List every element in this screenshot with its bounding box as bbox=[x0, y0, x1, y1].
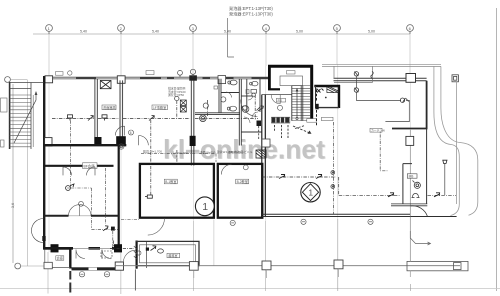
terrace bottom edge bbox=[115, 265, 460, 267]
column square wing interior bbox=[406, 136, 414, 145]
column G3 dark bbox=[189, 75, 197, 80]
circled 5 terrace bbox=[301, 219, 306, 224]
main stair center rail bbox=[301, 86, 303, 121]
riser circle corridor bbox=[175, 96, 179, 100]
main stair treads bbox=[292, 86, 310, 121]
urinal rects bbox=[246, 90, 249, 94]
grid line B vertical bbox=[120, 34, 122, 75]
small label above wall mid bbox=[146, 71, 154, 75]
exterior stair up arrow bbox=[14, 92, 36, 143]
dark box symbol below wall bbox=[111, 227, 115, 231]
EV door dashed bbox=[316, 90, 318, 127]
vent circle grid3 bbox=[190, 69, 195, 77]
dashed drop toilet corridor bbox=[254, 95, 256, 120]
svg-text:発泡器:EPT:1-13P(T30): 発泡器:EPT:1-13P(T30) bbox=[229, 11, 273, 18]
small box left edge lower bbox=[1, 140, 5, 147]
fence line below kitchen bbox=[134, 269, 136, 290]
slash glyphs corridor bbox=[257, 106, 264, 111]
svg-text:便所:W=800: 便所:W=800 bbox=[228, 151, 244, 155]
circled 11 bbox=[278, 105, 283, 110]
dashed arrows below stair bbox=[295, 126, 305, 129]
porch rectangle bbox=[334, 66, 373, 82]
bottom column C3 bbox=[262, 261, 271, 270]
rect fixture right toilet bbox=[251, 90, 257, 97]
drive curve inner bbox=[434, 66, 459, 215]
grid line A vertical bbox=[48, 34, 50, 75]
B1 wall pale extension bbox=[213, 220, 215, 266]
flag symbol 1 bbox=[68, 115, 73, 121]
top-right canopy lines bbox=[322, 64, 441, 66]
circled 15 room left bbox=[79, 201, 84, 206]
svg-text:6: 6 bbox=[130, 131, 132, 135]
corridor dash line bbox=[141, 153, 216, 162]
svg-text:W=1,200: W=1,200 bbox=[176, 151, 188, 155]
svg-text:1: 1 bbox=[308, 188, 313, 198]
PS room wall bbox=[262, 94, 292, 96]
curtain label box bbox=[370, 128, 382, 132]
dash vertical above B1 bbox=[176, 150, 178, 163]
column G1 bbox=[45, 76, 53, 83]
bottom column C2 bbox=[189, 262, 198, 271]
svg-text:BF倉庫: BF倉庫 bbox=[84, 163, 96, 168]
corridor dash vertical bbox=[112, 231, 114, 248]
dashed panel box bbox=[101, 251, 112, 258]
stub column toilet wall bbox=[218, 76, 226, 84]
svg-text:3,6: 3,6 bbox=[11, 203, 15, 208]
left dimension line bbox=[27, 80, 29, 266]
right boundary vertical bbox=[456, 82, 458, 204]
symbol right of MB bbox=[434, 193, 440, 197]
vestibule thick walls bbox=[268, 65, 313, 121]
exterior stair top landing bbox=[10, 83, 44, 89]
office label box bbox=[152, 105, 168, 110]
corner post square bbox=[452, 75, 458, 82]
toilet fixture 4 bbox=[242, 106, 248, 110]
svg-text:B-1教室: B-1教室 bbox=[165, 179, 176, 184]
vestibule landing bbox=[280, 76, 303, 86]
label box washroom bbox=[102, 105, 116, 110]
big circled 1 bbox=[195, 197, 214, 216]
arrow symbol below wall bbox=[103, 226, 108, 231]
pump symbol bbox=[413, 181, 421, 189]
dash route to door bbox=[71, 188, 91, 228]
kitchen label bbox=[167, 253, 180, 257]
wall y=166 storage bbox=[43, 165, 114, 167]
small room SW walls bbox=[44, 247, 72, 250]
interior wall x=118.7 bbox=[118, 146, 120, 249]
left grid bubble top bbox=[5, 77, 28, 83]
electrical phi right bbox=[400, 98, 408, 103]
interior wall x=121 bbox=[120, 80, 123, 136]
grid bubble 1 bbox=[46, 25, 53, 34]
stair landing box left edge bbox=[1, 98, 8, 112]
column bottom x118 filled bbox=[114, 244, 122, 252]
bottom-left wall y=248 bbox=[43, 247, 119, 250]
column outline bottom x119 bbox=[115, 262, 123, 270]
circled 6 mid bbox=[129, 130, 134, 135]
toilet block walls bbox=[195, 79, 262, 146]
sink circle 2 bbox=[203, 103, 208, 108]
big door arc toilet exit bbox=[241, 100, 258, 117]
svg-text:5,00: 5,00 bbox=[368, 30, 375, 34]
svg-text:B-2教室: B-2教室 bbox=[237, 179, 248, 184]
flag symbol 2 bbox=[102, 115, 107, 121]
electrical phi top bbox=[354, 72, 358, 77]
svg-text:湯沸室: 湯沸室 bbox=[168, 253, 178, 258]
grid F through wing bbox=[409, 130, 411, 217]
kitchen door arc bbox=[123, 250, 136, 262]
left grid bubble bottom bbox=[15, 263, 44, 269]
roof label and symbol above wall bbox=[56, 72, 64, 76]
grid bubble 2 bbox=[118, 25, 125, 34]
property line heavy dashed below bbox=[69, 271, 71, 293]
svg-text:建具:W=1,700: 建具:W=1,700 bbox=[143, 149, 162, 154]
flag in B1 bbox=[145, 195, 152, 198]
EV hatch box bbox=[327, 87, 338, 93]
room1 bottom wall y=145 bbox=[43, 144, 126, 146]
room B-2 label bbox=[236, 179, 249, 184]
corridor door arc bbox=[139, 136, 149, 146]
svg-text:倉庫: 倉庫 bbox=[57, 255, 64, 260]
dash vert corridor left bbox=[105, 168, 107, 224]
sink circle 1 bbox=[221, 97, 226, 102]
circled left kitchen bbox=[137, 251, 141, 255]
EV corner glyphs bbox=[317, 89, 324, 93]
electrical dashline main left bbox=[52, 118, 119, 120]
drain jog arrow bbox=[410, 231, 430, 245]
MB room bbox=[403, 129, 427, 205]
sheet right border bbox=[496, 8, 498, 291]
right wing east wall bbox=[392, 81, 427, 129]
door arc room1 bbox=[115, 126, 124, 135]
corridor riser dash vertical bbox=[333, 122, 335, 214]
toilet door arcs bbox=[226, 92, 258, 123]
top wall dark segments bbox=[43, 77, 269, 79]
bottom right slab band bbox=[407, 261, 468, 270]
vestibule label bbox=[287, 71, 296, 74]
door hinge blob bbox=[42, 236, 45, 241]
console boxes dark bbox=[272, 118, 289, 123]
grid line D vertical bbox=[265, 34, 267, 66]
kitchen fixtures bbox=[158, 249, 164, 253]
circled 8 toilet bbox=[200, 115, 207, 122]
grid bubble 3 bbox=[190, 25, 197, 34]
fixture box corridor wall bbox=[262, 139, 270, 147]
circled symbol b2 bbox=[104, 272, 109, 277]
EV center dot bbox=[325, 97, 327, 99]
arrow symbol 1 bbox=[88, 116, 93, 121]
double door arcs y=215.8 bbox=[69, 205, 92, 216]
exterior stair left rail bbox=[9, 82, 11, 149]
arrow symbol 2 bbox=[149, 116, 154, 121]
door arcs bottom wall bbox=[76, 250, 111, 259]
svg-text:1: 1 bbox=[202, 201, 208, 213]
slab inner square bbox=[454, 263, 462, 270]
circled 6 terrace bbox=[368, 219, 373, 224]
grid F lower segment bbox=[409, 217, 411, 262]
hatch marks left of kitchen bbox=[134, 246, 137, 259]
toilet fixture 1 bbox=[228, 80, 237, 85]
toilet fixture 3 bbox=[227, 106, 236, 111]
column mid room bbox=[94, 137, 101, 146]
dash line right of MB bbox=[428, 194, 457, 196]
svg-text:P.S: P.S bbox=[278, 99, 282, 103]
column office wall bbox=[190, 136, 196, 146]
svg-text:1F事務室: 1F事務室 bbox=[153, 105, 166, 110]
svg-text:5,40: 5,40 bbox=[80, 30, 87, 34]
column ticks below bbox=[194, 269, 339, 278]
dash route into kitchen bbox=[110, 241, 134, 249]
note leader line bbox=[228, 18, 235, 57]
circled 5 below B1 bbox=[230, 220, 235, 225]
room B-2 bbox=[218, 164, 262, 218]
toilet fixture 2 bbox=[250, 81, 258, 86]
grid bubble 5 bbox=[334, 25, 341, 34]
terrace symbol 2 bbox=[316, 175, 322, 179]
vent circle C wall bbox=[178, 70, 183, 77]
main stair arrow bbox=[296, 89, 298, 118]
svg-text:洗面:W=750: 洗面:W=750 bbox=[200, 151, 216, 155]
toilet dash drop bbox=[207, 100, 209, 116]
svg-text:カーテンW: カーテンW bbox=[371, 129, 385, 133]
column right wing bbox=[406, 74, 416, 83]
column bottom left filled bbox=[51, 244, 59, 252]
entry door arcs left wall bbox=[32, 219, 44, 243]
office room right wall x=193 bbox=[191, 80, 194, 165]
big section marker diamond bbox=[301, 183, 320, 202]
circled symbol b1 bbox=[79, 272, 84, 277]
bottom wall band bbox=[72, 267, 89, 270]
sheet bottom border bbox=[0, 288, 500, 290]
svg-text:5,40: 5,40 bbox=[224, 30, 231, 34]
double door arcs wall y166 bbox=[63, 167, 95, 176]
circled 14 lower bbox=[119, 144, 124, 149]
B-2 door arc bbox=[221, 164, 231, 174]
left exterior wall bbox=[43, 76, 45, 249]
MB room bottom bbox=[391, 204, 427, 206]
electrical route down bbox=[385, 100, 409, 121]
corridor dash horizontal bbox=[121, 219, 139, 221]
svg-text:MB: MB bbox=[409, 175, 414, 179]
EV label box bbox=[322, 117, 334, 120]
landing label box bbox=[307, 119, 316, 123]
grid bubble 6 bbox=[407, 25, 414, 34]
small room label bbox=[56, 256, 64, 260]
lamp flag right bbox=[443, 160, 447, 163]
electrical S glyph bbox=[371, 72, 373, 80]
dash drop left room bbox=[66, 121, 70, 189]
grid lines pale full height bbox=[49, 64, 410, 252]
grid line F vertical bbox=[409, 34, 411, 73]
terrace wall south bbox=[262, 214, 457, 216]
grid line C vertical bbox=[192, 34, 194, 75]
omega symbol bbox=[412, 194, 420, 198]
circled symbol B-2 top bbox=[243, 165, 248, 170]
room B-1 bbox=[140, 164, 214, 218]
electrical phi mid bbox=[354, 88, 358, 93]
exterior stair treads bbox=[10, 95, 31, 147]
sink circle corridor bbox=[242, 106, 249, 113]
wall protrusion bbox=[45, 138, 52, 146]
hatched shaft corner bbox=[256, 150, 266, 158]
outlet circle 1 bbox=[331, 171, 335, 175]
outlet circle left room bbox=[66, 184, 74, 190]
MB label bbox=[407, 174, 417, 178]
main stair left edge bbox=[291, 86, 293, 121]
svg-text:洗面器具: 洗面器具 bbox=[103, 105, 117, 110]
label box BF storage bbox=[83, 163, 98, 169]
bottom column C4 bbox=[334, 260, 343, 269]
PS label box bbox=[276, 98, 285, 102]
svg-text:5,00: 5,00 bbox=[296, 30, 303, 34]
watermark kl-online.net bbox=[163, 135, 326, 166]
kitchen arrow symbol bbox=[151, 246, 156, 251]
column G2 bbox=[117, 76, 125, 84]
svg-text:5,40: 5,40 bbox=[152, 30, 159, 34]
exterior stair inner rail bbox=[30, 83, 32, 150]
room B-1 label bbox=[164, 179, 177, 184]
top wall (north exterior) bbox=[43, 77, 269, 79]
column outline SW bbox=[44, 262, 52, 269]
diagonal dashed arrows bbox=[293, 126, 311, 134]
EPS shaft boxes bbox=[180, 100, 186, 112]
electrical riser line bbox=[356, 76, 401, 100]
grid line E vertical bbox=[336, 34, 338, 64]
dash route below door wall bbox=[91, 228, 118, 230]
right wing north wall bbox=[334, 78, 427, 80]
door arc below B-1 bbox=[148, 218, 165, 235]
EV room walls bbox=[314, 85, 340, 108]
PS door arc bbox=[271, 95, 280, 104]
top dimension line bbox=[33, 33, 410, 35]
drive curve outer bbox=[441, 66, 478, 215]
column x121 lower bbox=[116, 136, 126, 145]
bottom kitchen room walls bbox=[136, 241, 199, 269]
outlet circle 2 bbox=[331, 185, 335, 189]
terrace symbol 1 bbox=[279, 175, 285, 179]
drop to B1 bbox=[150, 120, 152, 195]
interior wall x=96 bbox=[95, 79, 97, 137]
grid bubble 4 bbox=[263, 25, 270, 34]
X-box vent shaft bbox=[100, 81, 111, 89]
console stems dashed bbox=[275, 125, 289, 138]
corridor wall x=263 bbox=[262, 95, 266, 217]
door wall y=215.8 left zone bbox=[44, 215, 119, 217]
terrace symbol 3 bbox=[388, 193, 394, 197]
console box corridor bbox=[257, 121, 262, 127]
lamp drop right bbox=[444, 164, 446, 196]
electrical dashline terrace bbox=[262, 177, 400, 195]
dash-dot drop bbox=[380, 128, 388, 171]
